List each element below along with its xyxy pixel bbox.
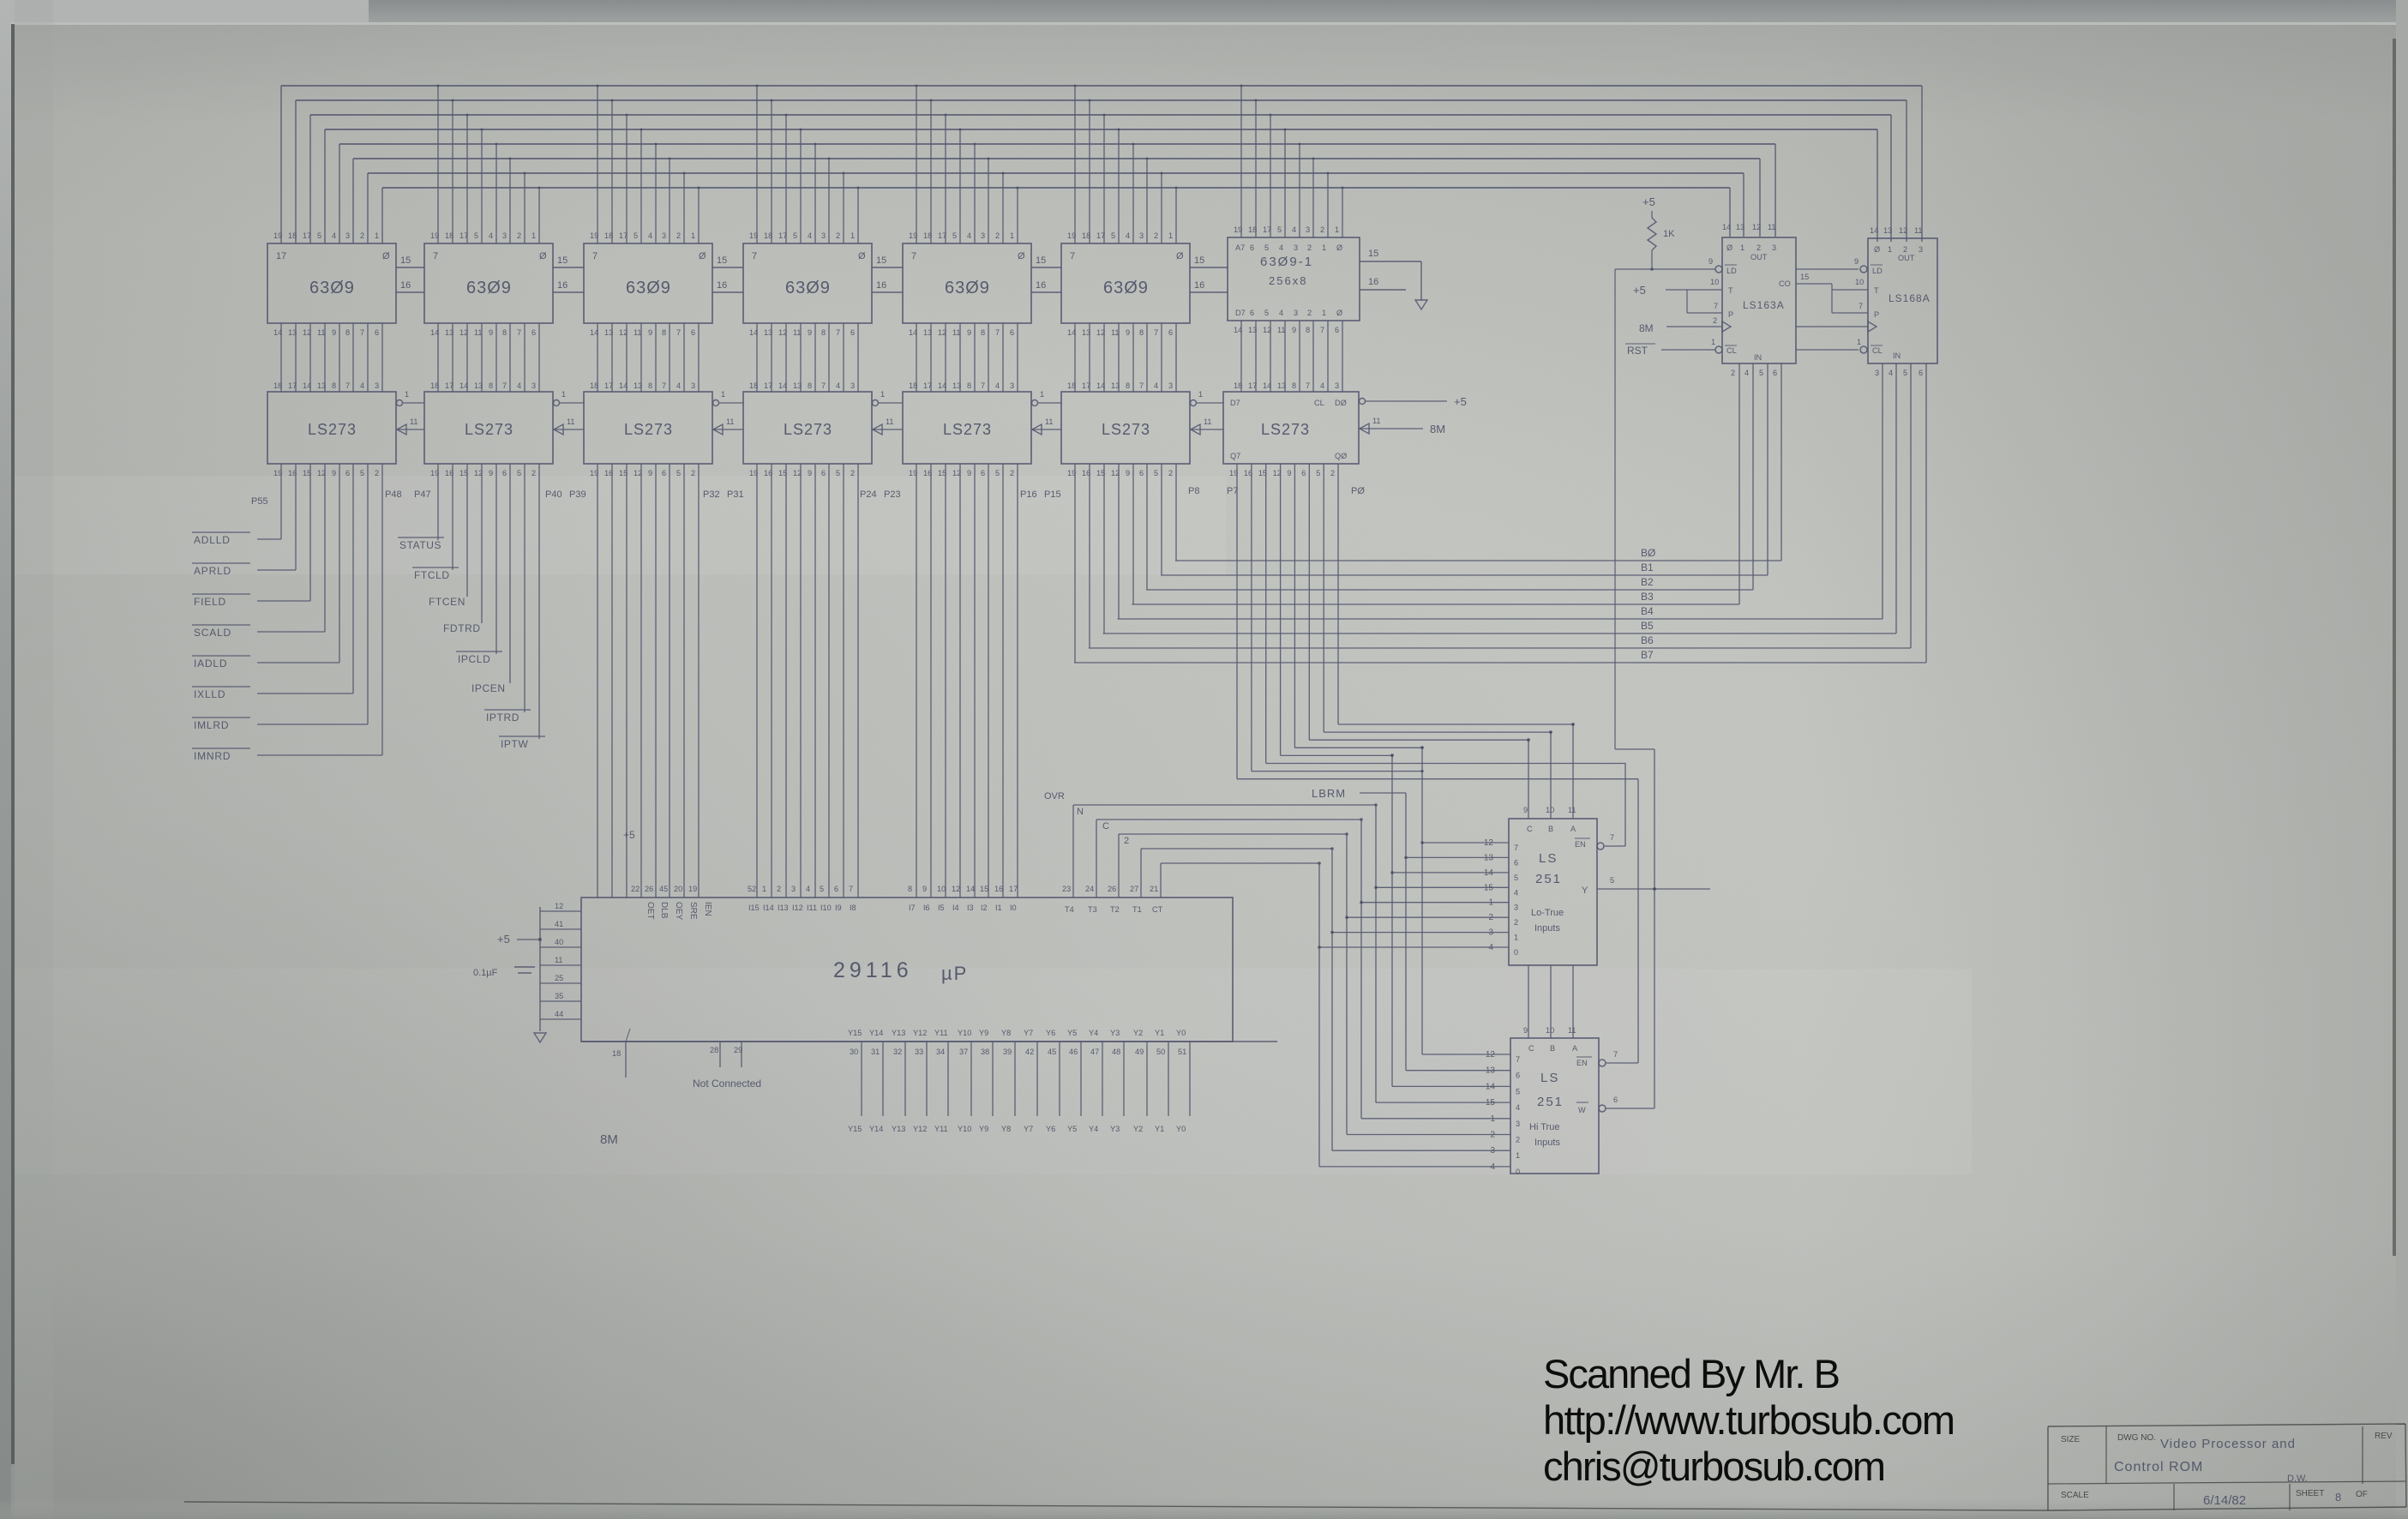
svg-text:12: 12 [778,328,787,337]
svg-text:B1: B1 [1641,561,1654,573]
svg-text:C: C [1528,1044,1534,1053]
svg-text:2: 2 [1330,469,1335,477]
svg-text:LD: LD [1726,267,1737,275]
svg-text:PØ: PØ [1351,486,1365,496]
svg-text:Ø: Ø [1336,243,1342,252]
svg-text:2: 2 [1490,1131,1495,1140]
svg-text:32: 32 [893,1048,902,1056]
svg-text:8: 8 [332,381,336,390]
svg-text:14: 14 [966,885,975,893]
svg-text:6: 6 [1773,369,1777,377]
svg-text:251: 251 [1537,1095,1564,1109]
svg-text:33: 33 [915,1048,923,1056]
svg-text:22: 22 [631,885,640,893]
svg-text:6: 6 [1010,328,1014,337]
svg-text:Y9: Y9 [979,1125,988,1133]
svg-text:15: 15 [1800,273,1809,281]
svg-text:B: B [1548,825,1553,833]
svg-text:I4: I4 [952,904,959,912]
svg-text:OUT: OUT [1898,254,1915,262]
svg-text:18: 18 [430,381,439,390]
svg-text:13: 13 [1082,328,1090,337]
svg-text:5: 5 [1277,225,1282,234]
svg-text:11: 11 [793,328,802,337]
svg-text:Ø: Ø [1874,245,1880,254]
svg-text:4: 4 [808,231,812,240]
svg-text:12: 12 [619,328,628,337]
svg-text:12: 12 [555,902,563,910]
svg-text:12: 12 [1484,838,1494,848]
svg-text:7: 7 [911,251,916,261]
svg-text:3: 3 [1516,1120,1520,1128]
svg-text:2: 2 [1903,245,1907,254]
svg-text:A: A [1570,825,1576,833]
svg-text:8: 8 [345,328,350,337]
svg-text:2: 2 [1731,369,1735,377]
svg-text:I9: I9 [835,904,842,912]
svg-text:0: 0 [1514,948,1518,957]
svg-text:4: 4 [967,231,971,240]
svg-text:11: 11 [1568,806,1576,814]
svg-text:7: 7 [752,251,757,261]
svg-text:Hi True: Hi True [1529,1122,1559,1132]
svg-text:18: 18 [923,231,932,240]
svg-text:8: 8 [967,381,971,390]
svg-text:P: P [1728,310,1733,319]
svg-text:Y3: Y3 [1110,1029,1120,1037]
svg-text:I12: I12 [792,904,803,912]
svg-text:14: 14 [778,381,787,390]
svg-text:63Ø9: 63Ø9 [785,279,831,297]
svg-text:2: 2 [1307,243,1312,252]
svg-text:5: 5 [634,231,638,240]
svg-text:25: 25 [555,974,563,982]
svg-text:Y14: Y14 [869,1029,883,1037]
svg-text:Y7: Y7 [1024,1125,1033,1133]
svg-text:17: 17 [764,381,772,390]
svg-text:7: 7 [836,328,840,337]
svg-text:6: 6 [850,328,855,337]
svg-text:IMLRD: IMLRD [194,719,229,731]
svg-text:OF: OF [2356,1490,2368,1499]
svg-text:A: A [1572,1044,1578,1053]
svg-text:9: 9 [922,885,927,893]
svg-text:17: 17 [619,231,628,240]
svg-text:Scanned By Mr. B: Scanned By Mr. B [1543,1351,1841,1396]
svg-text:P23: P23 [884,489,901,500]
svg-text:14: 14 [273,328,282,337]
svg-text:18: 18 [1067,381,1076,390]
svg-text:45: 45 [659,885,668,893]
svg-text:12: 12 [459,328,468,337]
svg-text:2: 2 [1010,469,1014,477]
svg-text:63Ø9: 63Ø9 [626,279,671,297]
svg-text:7: 7 [1514,844,1518,852]
svg-text:5: 5 [1316,469,1320,477]
svg-text:Y12: Y12 [913,1029,927,1037]
svg-text:9: 9 [967,328,971,337]
svg-text:1: 1 [1168,231,1173,240]
svg-text:14: 14 [303,381,311,390]
svg-text:8: 8 [1139,328,1144,337]
svg-text:3: 3 [662,231,666,240]
svg-text:10: 10 [1546,806,1554,814]
svg-text:16: 16 [557,280,567,291]
svg-text:4: 4 [676,381,681,390]
svg-text:18: 18 [909,381,917,390]
svg-text:50: 50 [1156,1048,1165,1056]
svg-text:19: 19 [430,231,439,240]
svg-text:ADLLD: ADLLD [194,534,231,546]
svg-text:26: 26 [645,885,653,893]
svg-text:34: 34 [936,1048,945,1056]
svg-text:5: 5 [474,231,478,240]
svg-text:chris@turbosub.com: chris@turbosub.com [1543,1444,1886,1489]
svg-text:4: 4 [1292,225,1296,234]
svg-text:EN: EN [1575,840,1586,849]
svg-text:11: 11 [1568,1026,1576,1035]
svg-text:63Ø9: 63Ø9 [309,279,355,297]
svg-text:DWG NO.: DWG NO. [2117,1433,2156,1443]
svg-text:5: 5 [517,469,521,477]
svg-text:17: 17 [303,231,311,240]
svg-text:0: 0 [1516,1168,1520,1176]
svg-text:14: 14 [430,328,439,337]
svg-text:P40: P40 [545,489,562,500]
svg-text:17: 17 [1009,885,1018,893]
svg-text:13: 13 [952,381,961,390]
svg-text:P31: P31 [727,489,744,500]
svg-text:7: 7 [1320,326,1324,334]
svg-text:IPCLD: IPCLD [458,653,490,665]
svg-text:Y5: Y5 [1067,1029,1077,1037]
svg-text:14: 14 [938,381,946,390]
svg-text:STATUS: STATUS [399,539,441,551]
svg-text:1: 1 [1514,934,1518,942]
svg-text:1: 1 [531,231,536,240]
svg-text:17: 17 [938,231,946,240]
svg-text:4: 4 [648,231,652,240]
svg-text:OEY: OEY [674,902,683,920]
svg-text:Ø: Ø [382,251,390,261]
svg-text:P32: P32 [703,489,720,500]
svg-text:5: 5 [952,231,957,240]
svg-text:6: 6 [1919,369,1923,377]
svg-text:13: 13 [634,381,642,390]
svg-text:T3: T3 [1088,905,1097,914]
svg-text:7: 7 [821,381,826,390]
svg-text:15: 15 [400,255,411,266]
svg-text:7: 7 [1714,302,1718,310]
svg-text:16: 16 [717,280,727,291]
svg-text:7: 7 [517,328,521,337]
svg-text:14: 14 [1234,326,1242,334]
svg-text:19: 19 [273,231,282,240]
svg-text:5: 5 [836,469,840,477]
svg-text:EN: EN [1576,1059,1588,1067]
svg-text:Y15: Y15 [848,1029,862,1037]
svg-text:LS273: LS273 [784,421,832,438]
svg-text:11: 11 [1204,417,1212,426]
svg-text:11: 11 [1768,223,1776,231]
svg-text:2: 2 [777,885,781,893]
svg-text:+5: +5 [1633,284,1646,297]
svg-text:2: 2 [1124,836,1129,846]
svg-text:IPTW: IPTW [501,738,528,750]
svg-text:5: 5 [676,469,681,477]
svg-text:C: C [1527,825,1533,833]
svg-text:15: 15 [876,255,886,266]
svg-text:Y1: Y1 [1155,1029,1164,1037]
svg-text:12: 12 [952,885,960,893]
svg-text:39: 39 [1003,1048,1012,1056]
svg-text:4: 4 [489,231,493,240]
svg-text:63Ø9: 63Ø9 [466,279,512,297]
svg-text:13: 13 [1486,1066,1496,1076]
svg-text:18: 18 [1082,231,1090,240]
svg-text:1: 1 [1040,390,1044,399]
svg-text:2: 2 [517,231,521,240]
svg-text:6: 6 [502,469,507,477]
svg-text:7: 7 [676,328,681,337]
svg-text:+5: +5 [623,829,635,841]
svg-text:6: 6 [662,469,666,477]
svg-text:63Ø9: 63Ø9 [1103,279,1149,297]
svg-text:LD: LD [1872,267,1883,275]
svg-text:P55: P55 [251,496,268,507]
svg-text:D.W.: D.W. [2287,1474,2308,1484]
svg-text:Y11: Y11 [934,1125,948,1133]
svg-text:44: 44 [555,1010,563,1018]
svg-text:28: 28 [710,1046,718,1054]
svg-text:4: 4 [1889,369,1893,377]
svg-text:19: 19 [1067,231,1076,240]
svg-text:14: 14 [1486,1082,1496,1091]
svg-text:SHEET: SHEET [2296,1489,2324,1498]
svg-text:24: 24 [1085,885,1094,893]
svg-text:FDTRD: FDTRD [443,622,481,634]
svg-text:2: 2 [1154,231,1158,240]
svg-text:SCALD: SCALD [194,627,231,639]
svg-text:6: 6 [1250,309,1254,317]
svg-text:5: 5 [820,885,824,893]
svg-text:8: 8 [2335,1491,2341,1504]
svg-text:7: 7 [1070,251,1075,261]
svg-text:I5: I5 [938,904,945,912]
svg-text:5: 5 [1514,874,1518,882]
svg-text:P47: P47 [414,489,431,500]
svg-text:4: 4 [836,381,840,390]
svg-text:9: 9 [1854,257,1859,266]
svg-text:12: 12 [1486,1050,1496,1060]
svg-text:Y6: Y6 [1046,1125,1055,1133]
svg-text:I3: I3 [967,904,974,912]
svg-text:I10: I10 [820,904,832,912]
svg-text:1: 1 [1488,898,1493,908]
svg-text:6: 6 [531,328,536,337]
svg-text:B3: B3 [1641,591,1654,603]
svg-text:3: 3 [981,231,985,240]
svg-text:18: 18 [590,381,598,390]
svg-text:Y0: Y0 [1176,1125,1186,1133]
svg-text:17: 17 [445,381,453,390]
svg-text:6/14/82: 6/14/82 [2203,1493,2246,1508]
svg-text:9: 9 [1126,469,1130,477]
svg-text:9: 9 [808,328,812,337]
svg-text:3: 3 [531,381,536,390]
svg-text:11: 11 [410,417,418,426]
svg-text:Control ROM: Control ROM [2114,1460,2203,1474]
svg-text:P15: P15 [1044,489,1061,500]
svg-text:IN: IN [1754,353,1762,362]
svg-text:16: 16 [1368,277,1378,287]
svg-text:8M: 8M [600,1132,618,1147]
svg-text:13: 13 [1484,853,1494,862]
svg-text:12: 12 [1752,223,1761,231]
svg-text:16: 16 [876,280,886,291]
svg-text:P24: P24 [860,489,877,500]
svg-text:21: 21 [1150,885,1158,893]
svg-text:12: 12 [1096,328,1105,337]
svg-text:4: 4 [1279,309,1283,317]
svg-text:FTCEN: FTCEN [429,596,465,608]
svg-text:Y0: Y0 [1176,1029,1186,1037]
svg-text:7: 7 [502,381,507,390]
svg-text:+5: +5 [497,933,510,946]
svg-text:LS: LS [1540,1071,1559,1085]
svg-text:9: 9 [1126,328,1130,337]
svg-text:Ø: Ø [539,251,547,261]
svg-text:4: 4 [1514,888,1518,897]
svg-text:Y11: Y11 [934,1029,948,1037]
svg-text:8: 8 [821,328,826,337]
svg-text:11: 11 [952,328,961,337]
svg-text:2: 2 [836,231,840,240]
svg-text:Y10: Y10 [958,1029,971,1037]
svg-text:17: 17 [1263,225,1271,234]
svg-text:6: 6 [1335,326,1339,334]
svg-text:4: 4 [1126,231,1130,240]
svg-text:8: 8 [1306,326,1310,334]
svg-text:7: 7 [592,251,597,261]
svg-text:B6: B6 [1641,634,1654,646]
svg-text:18: 18 [764,231,772,240]
svg-text:17: 17 [1096,231,1105,240]
svg-text:8: 8 [908,885,912,893]
svg-text:IADLD: IADLD [194,657,227,669]
svg-text:16: 16 [1036,280,1046,291]
svg-text:I1: I1 [995,904,1002,912]
svg-text:10: 10 [1855,278,1864,286]
svg-text:Y8: Y8 [1001,1029,1011,1037]
svg-text:5: 5 [1759,369,1763,377]
svg-text:46: 46 [1069,1048,1078,1056]
svg-text:P16: P16 [1020,489,1037,500]
svg-text:8: 8 [981,328,985,337]
svg-text:15: 15 [1486,1098,1496,1108]
svg-text:I2: I2 [981,904,988,912]
svg-text:9: 9 [489,469,493,477]
svg-text:37: 37 [959,1048,968,1056]
svg-text:1: 1 [1740,243,1744,252]
svg-text:+5: +5 [1454,395,1467,408]
svg-text:I15: I15 [748,904,760,912]
svg-text:Ø: Ø [699,251,706,261]
svg-text:8: 8 [1126,381,1130,390]
svg-text:9: 9 [1523,1026,1528,1035]
svg-text:IXLLD: IXLLD [194,688,225,700]
svg-text:4: 4 [1744,369,1749,377]
svg-text:OUT: OUT [1750,253,1768,261]
svg-text:LS273: LS273 [465,421,513,438]
svg-text:6: 6 [1168,328,1173,337]
svg-text:3: 3 [1294,243,1298,252]
svg-text:Y: Y [1582,886,1588,896]
svg-text:3: 3 [1139,231,1144,240]
svg-text:1: 1 [1322,243,1326,252]
svg-text:DØ: DØ [1335,399,1347,407]
svg-text:5: 5 [1111,231,1115,240]
svg-text:Y13: Y13 [892,1125,905,1133]
svg-text:3: 3 [1875,369,1879,377]
svg-text:23: 23 [1062,885,1071,893]
svg-text:IPCEN: IPCEN [471,682,506,694]
svg-text:4: 4 [360,381,364,390]
svg-text:13: 13 [604,328,613,337]
svg-text:C: C [1102,821,1109,832]
svg-text:5: 5 [995,469,1000,477]
svg-text:5: 5 [1154,469,1158,477]
svg-text:7: 7 [1516,1055,1520,1064]
svg-text:W: W [1578,1106,1586,1114]
svg-text:7: 7 [360,328,364,337]
svg-text:15: 15 [1368,249,1378,259]
svg-text:13: 13 [793,381,802,390]
svg-text:251: 251 [1535,872,1562,886]
svg-text:7: 7 [1859,302,1863,310]
svg-text:T1: T1 [1132,905,1142,914]
svg-text:4: 4 [332,231,336,240]
svg-text:2: 2 [691,469,695,477]
svg-text:11: 11 [1111,328,1120,337]
svg-text:Y3: Y3 [1110,1125,1120,1133]
svg-text:Not Connected: Not Connected [693,1078,761,1090]
svg-text:2: 2 [1488,913,1493,922]
svg-text:13: 13 [764,328,772,337]
svg-text:7: 7 [433,251,438,261]
svg-text:11: 11 [1372,417,1381,425]
svg-text:LS273: LS273 [1102,421,1150,438]
svg-text:FIELD: FIELD [194,596,226,608]
svg-text:18: 18 [1248,225,1257,234]
svg-text:13: 13 [1111,381,1120,390]
svg-text:48: 48 [1112,1048,1120,1056]
svg-text:I0: I0 [1010,904,1017,912]
svg-text:51: 51 [1178,1048,1186,1056]
svg-text:9: 9 [332,469,336,477]
svg-text:7: 7 [995,328,1000,337]
svg-text:12: 12 [1899,226,1907,235]
svg-text:Y5: Y5 [1067,1125,1077,1133]
svg-text:8: 8 [489,381,493,390]
svg-text:3: 3 [502,231,507,240]
svg-text:13: 13 [317,381,326,390]
svg-text:6: 6 [834,885,838,893]
svg-text:6: 6 [821,469,826,477]
svg-text:CO: CO [1779,279,1791,288]
svg-text:I6: I6 [923,904,930,912]
svg-text:LS168A: LS168A [1889,292,1931,304]
